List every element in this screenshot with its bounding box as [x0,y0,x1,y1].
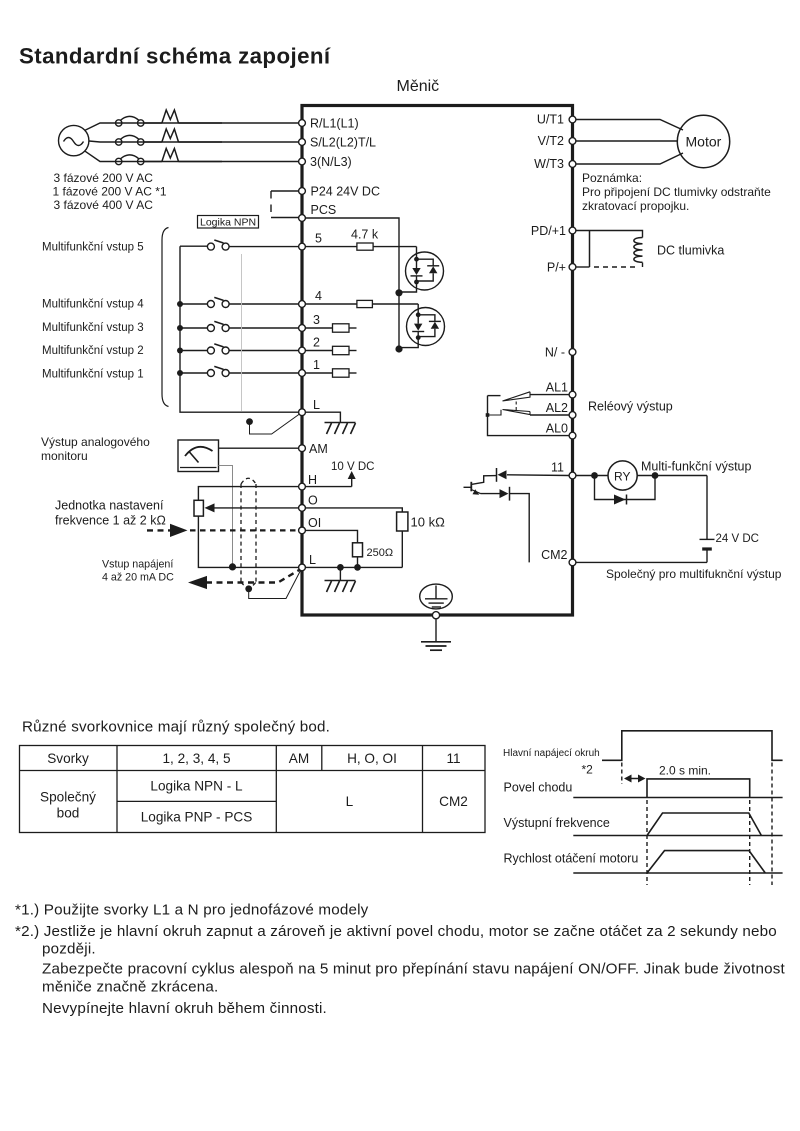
svg-text:monitoru: monitoru [41,449,88,463]
terminal 2 [299,347,306,354]
svg-text:L: L [346,794,354,809]
terminal H [299,483,306,490]
resistor 250 [353,543,363,557]
dashed marker rise [621,763,623,785]
terminal earth [432,612,439,619]
waveform motor speed [573,851,782,873]
svg-text:Výstupní frekvence: Výstupní frekvence [504,816,610,830]
terminal O [299,505,306,512]
switch S1 [180,366,299,376]
shorting link propojka [589,231,591,268]
internal output diode D2 [481,493,500,495]
optocoupler PC1 [399,247,444,292]
relay coil RY [608,461,637,490]
junction PC1-PCS [395,289,402,296]
switch S3 [180,321,299,331]
svg-text:Poznámka:: Poznámka: [582,171,642,185]
input section brace [162,228,169,407]
zigzag breaker R [162,110,179,123]
svg-text:AL0: AL0 [546,422,568,436]
protective earth ground [421,642,451,650]
svg-text:Multifunkční vstup 4: Multifunkční vstup 4 [42,299,144,311]
svg-text:N/ -: N/ - [545,346,565,360]
P24 link wire [271,190,299,192]
terminal 1 [299,370,306,377]
input common bus [180,246,299,412]
junction meter wire on L [229,563,236,570]
mechanical link dashed [515,402,517,412]
terminal L (logic common) [299,409,306,416]
svg-text:Multifunkční vstup 5: Multifunkční vstup 5 [42,242,144,254]
Logika NPN box [198,216,259,229]
shield drain dot [245,585,252,592]
battery 24V [706,476,708,540]
svg-text:1: 1 [313,358,320,372]
wire 11 to RY [576,475,608,477]
svg-text:Multifunkční vstup 3: Multifunkční vstup 3 [42,322,144,334]
svg-text:Povel chodu: Povel chodu [504,781,573,795]
resistor R3 [305,327,332,329]
svg-text:R/L1(L1): R/L1(L1) [310,117,359,131]
svg-text:4 až 20 mA DC: 4 až 20 mA DC [102,572,174,584]
wire R to terminal [179,122,299,124]
terminal U/T1 [569,116,576,123]
svg-text:3(N/L3): 3(N/L3) [310,155,352,169]
svg-text:měniče značně zkrácena.: měniče značně zkrácena. [42,979,218,996]
svg-text:zkratovací propojku.: zkratovací propojku. [582,199,689,213]
svg-text:Reléový výstup: Reléový výstup [588,400,673,414]
svg-text:2.0 s min.: 2.0 s min. [659,764,711,778]
wire H to potentiometer [198,487,298,501]
pot bottom wire [198,516,298,567]
svg-text:L: L [309,553,316,567]
svg-text:PD/+1: PD/+1 [531,224,566,238]
relay contact NO (AL1) [530,394,569,396]
zigzag breaker S [162,129,179,142]
svg-text:Multifunkční vstup 2: Multifunkční vstup 2 [42,345,144,357]
svg-text:AM: AM [289,751,309,766]
dashed marker power off [771,763,773,886]
wire H internal [305,486,351,488]
terminal AL1 [569,391,576,398]
svg-text:Vstup napájení: Vstup napájení [102,559,173,571]
svg-text:bod: bod [57,806,80,821]
wiper arrow to O [212,507,299,509]
motor M [677,115,729,167]
svg-text:DC tlumivka: DC tlumivka [657,244,724,258]
cable shield capsule [241,478,256,587]
svg-text:P/+: P/+ [547,261,566,275]
svg-text:AL1: AL1 [546,381,568,395]
svg-text:11: 11 [551,461,564,475]
dashed marker run stop [749,800,751,885]
terminal R/L1 [299,120,306,127]
terminal 5 [299,243,306,250]
optocoupler PC2 [399,304,445,348]
terminal AL0 [569,432,576,439]
switch S4 [180,297,299,307]
wire V to motor [576,140,678,142]
svg-text:1 fázové 200 V AC *1: 1 fázové 200 V AC *1 [53,184,167,198]
svg-text:Společný: Společný [40,790,96,805]
svg-text:V/T2: V/T2 [538,134,564,148]
dashed wire choke to P+ [594,266,637,268]
internal output diode D1 [507,474,569,477]
svg-text:H: H [308,473,317,487]
waveform output freq [573,813,782,836]
svg-text:Měnič: Měnič [397,78,440,95]
terminal 3 [299,325,306,332]
terminal L (analog common) [299,564,306,571]
2s arrow [626,778,644,780]
svg-text:Multi-funkční výstup: Multi-funkční výstup [641,460,752,474]
terminal PD/+1 [569,227,576,234]
svg-text:Standardní schéma zapojení: Standardní schéma zapojení [19,44,331,69]
terminal 3(N/L3) [299,158,306,165]
svg-text:10 V DC: 10 V DC [331,461,374,473]
wire L internal [305,566,402,568]
PCS link wire [271,217,299,219]
dashed wire OI external [190,529,299,531]
svg-text:*2.) Jestliže je hlavní okruh: *2.) Jestliže je hlavní okruh zapnut a z… [15,923,777,940]
svg-text:*2: *2 [582,763,594,777]
wire shield to L [250,414,300,434]
wire P+ stub [576,266,590,268]
svg-text:W/T3: W/T3 [534,157,564,171]
svg-text:4: 4 [315,289,322,303]
svg-text:U/T1: U/T1 [537,113,564,127]
svg-text:Pro připojení DC tlumivky odst: Pro připojení DC tlumivky odstraňte [582,185,771,199]
svg-text:*1.) Použijte svorky L1 a N pr: *1.) Použijte svorky L1 a N pro jednofáz… [15,902,369,919]
junction PC2-PCS [395,345,402,352]
terminal V/T2 [569,138,576,145]
svg-text:PCS: PCS [311,203,337,217]
resistor R2 [305,350,332,352]
svg-text:S/L2(L2)T/L: S/L2(L2)T/L [310,136,376,150]
wire meter to AM [219,447,299,449]
wire source to T line [85,151,223,162]
wire T to terminal [179,161,299,163]
wire L to ground [305,412,340,422]
svg-text:3: 3 [313,313,320,327]
resistor R5 4.7k [305,246,357,248]
svg-text:Logika NPN: Logika NPN [200,217,256,229]
ground (functional) analog [325,581,356,593]
inverter box U1 [302,106,573,616]
svg-text:1, 2, 3, 4, 5: 1, 2, 3, 4, 5 [162,751,230,766]
terminal AM [299,445,306,452]
wire source to R line [85,123,223,131]
svg-text:O: O [308,494,318,508]
wire PD to choke [576,231,643,238]
svg-text:250Ω: 250Ω [367,547,394,559]
flyback diode D3 [595,476,656,500]
svg-text:Výstup analogového: Výstup analogového [41,435,150,449]
terminal S/L2 [299,139,306,146]
wire W to motor [576,153,683,164]
junction 250 tap [354,564,361,571]
svg-text:AM: AM [309,442,328,456]
junction input 3 [177,325,183,331]
svg-text:CM2: CM2 [439,794,468,809]
breaker contact line T [116,155,144,165]
svg-text:AL2: AL2 [546,401,568,415]
resistor R1 [305,372,332,374]
svg-text:3 fázové 400 V AC: 3 fázové 400 V AC [54,198,154,212]
svg-text:Společný pro multifuknční výst: Společný pro multifuknční výstup [606,567,782,581]
potentiometer 1-2k [194,500,203,516]
breaker contact line R [116,116,144,126]
terminal P/+ [569,264,576,271]
svg-text:Logika NPN - L: Logika NPN - L [150,779,243,794]
wire CM2 to battery [576,561,707,563]
wire S fuse to zigzag [144,141,162,143]
wire OI internal to 250 [305,530,357,542]
wire to analog ground [339,567,341,580]
junction input 4 [177,301,183,307]
svg-text:Multifunkční vstup 1: Multifunkční vstup 1 [42,369,144,381]
wire T fuse to zigzag [144,161,162,163]
svg-text:2: 2 [313,336,320,350]
wire source to S line [89,141,222,142]
removable link (dashed) [270,191,272,218]
wire S to terminal [179,141,299,143]
svg-text:P24 24V DC: P24 24V DC [311,185,380,199]
svg-text:11: 11 [446,751,460,766]
svg-text:CM2: CM2 [541,548,567,562]
input cable shield dot [246,418,253,425]
terminal 11 [569,472,576,479]
terminal P24 [299,188,306,195]
terminal AL2 [569,412,576,419]
terminal N/- [569,349,576,356]
output phototransistor Q1 [470,482,472,492]
choke L1 (DC tlumivka) [634,238,643,263]
waveform power [602,731,783,761]
wire O internal to 10k [305,508,402,512]
wire meter bottom drop [219,466,233,567]
svg-text:10 kΩ: 10 kΩ [411,515,446,530]
ground (functional) at L [325,423,356,435]
svg-text:Logika PNP - PCS: Logika PNP - PCS [141,810,253,825]
junction RY left [591,472,598,479]
resistor R4 [305,303,357,305]
PCS internal wire [305,218,399,350]
svg-text:H, O, OI: H, O, OI [347,751,397,766]
wire R fuse to zigzag [144,122,162,124]
svg-text:Zabezpečte pracovní cyklus ale: Zabezpečte pracovní cyklus alespoň na 5 … [42,961,785,978]
svg-text:Různé svorkovnice mají různý s: Různé svorkovnice mají různý společný bo… [22,719,330,736]
svg-text:Motor: Motor [686,134,722,150]
svg-text:4.7 k: 4.7 k [351,228,379,242]
wire U to motor [576,120,683,131]
switch S5 [180,240,299,250]
waveform run [573,779,782,798]
svg-text:frekvence 1 až 2 kΩ: frekvence 1 až 2 kΩ [55,514,166,528]
svg-text:RY: RY [614,470,630,484]
dashed marker run start [646,800,648,885]
terminal 4 [299,301,306,308]
table grid [20,746,486,833]
dashed arrow frequency input [147,529,171,531]
zigzag breaker T [162,149,179,162]
junction RY right [652,472,659,479]
svg-text:3 fázové 200 V AC: 3 fázové 200 V AC [54,171,154,185]
terminal CM2 [569,559,576,566]
switch S2 [180,344,299,354]
svg-text:později.: později. [42,941,96,958]
svg-text:Rychlost otáčení motoru: Rychlost otáčení motoru [504,852,639,866]
shield drain wire to L [249,571,301,599]
relay contact NC (AL2) [530,414,569,416]
svg-text:Svorky: Svorky [47,751,89,766]
resistor 10k [397,512,408,531]
earth terminal circle symbol [420,584,453,609]
svg-text:L: L [313,398,320,412]
breaker contact line S [116,135,144,145]
svg-text:5: 5 [315,232,322,246]
relay contact bar [488,396,570,436]
terminal W/T3 [569,161,576,168]
faint scan artifact line [241,254,243,411]
svg-text:Nevypínejte hlavní okruh během: Nevypínejte hlavní okruh během činnosti. [42,1000,327,1017]
junction input 1 [177,370,183,376]
svg-text:24 V DC: 24 V DC [716,533,759,545]
wire earth down [435,619,437,642]
svg-text:Hlavní napájecí okruh: Hlavní napájecí okruh [503,748,600,759]
dashed arrow current input [206,570,300,583]
svg-text:OI: OI [308,516,321,530]
terminal OI [299,527,306,534]
junction ground tap [337,564,344,571]
junction input 2 [177,348,183,354]
terminal PCS [299,215,306,222]
meter M1 [178,440,219,472]
svg-text:Jednotka nastavení: Jednotka nastavení [55,499,164,513]
AC source V1 [58,125,88,155]
